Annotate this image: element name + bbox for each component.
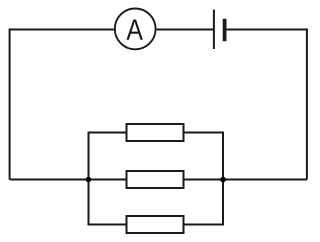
wire: ammeter to battery (157, 29, 214, 31)
node: left junction (86, 177, 92, 183)
resistor R3 (bottom branch) (127, 216, 184, 233)
resistor R2 (middle branch) (127, 171, 184, 188)
wire: bottom branch left lead (89, 224, 126, 226)
battery BT1 (214, 10, 225, 50)
wire: bottom main right segment (185, 179, 307, 181)
wire: right branch vertical (222, 132, 224, 226)
ammeter A1 (115, 9, 156, 50)
resistor R1 (top branch) (127, 124, 184, 141)
wire: top branch right lead (185, 132, 224, 134)
wire: battery to right side (top-right corner, right vertical) (226, 30, 307, 180)
wire: bottom branch right lead (185, 224, 224, 226)
wire: top branch left lead (89, 132, 126, 134)
wire: bottom main left segment (10, 179, 126, 181)
wire: left branch vertical (88, 132, 90, 226)
node: right junction (220, 177, 226, 183)
wire: left side (top-left corner, left vertical) (10, 30, 114, 180)
